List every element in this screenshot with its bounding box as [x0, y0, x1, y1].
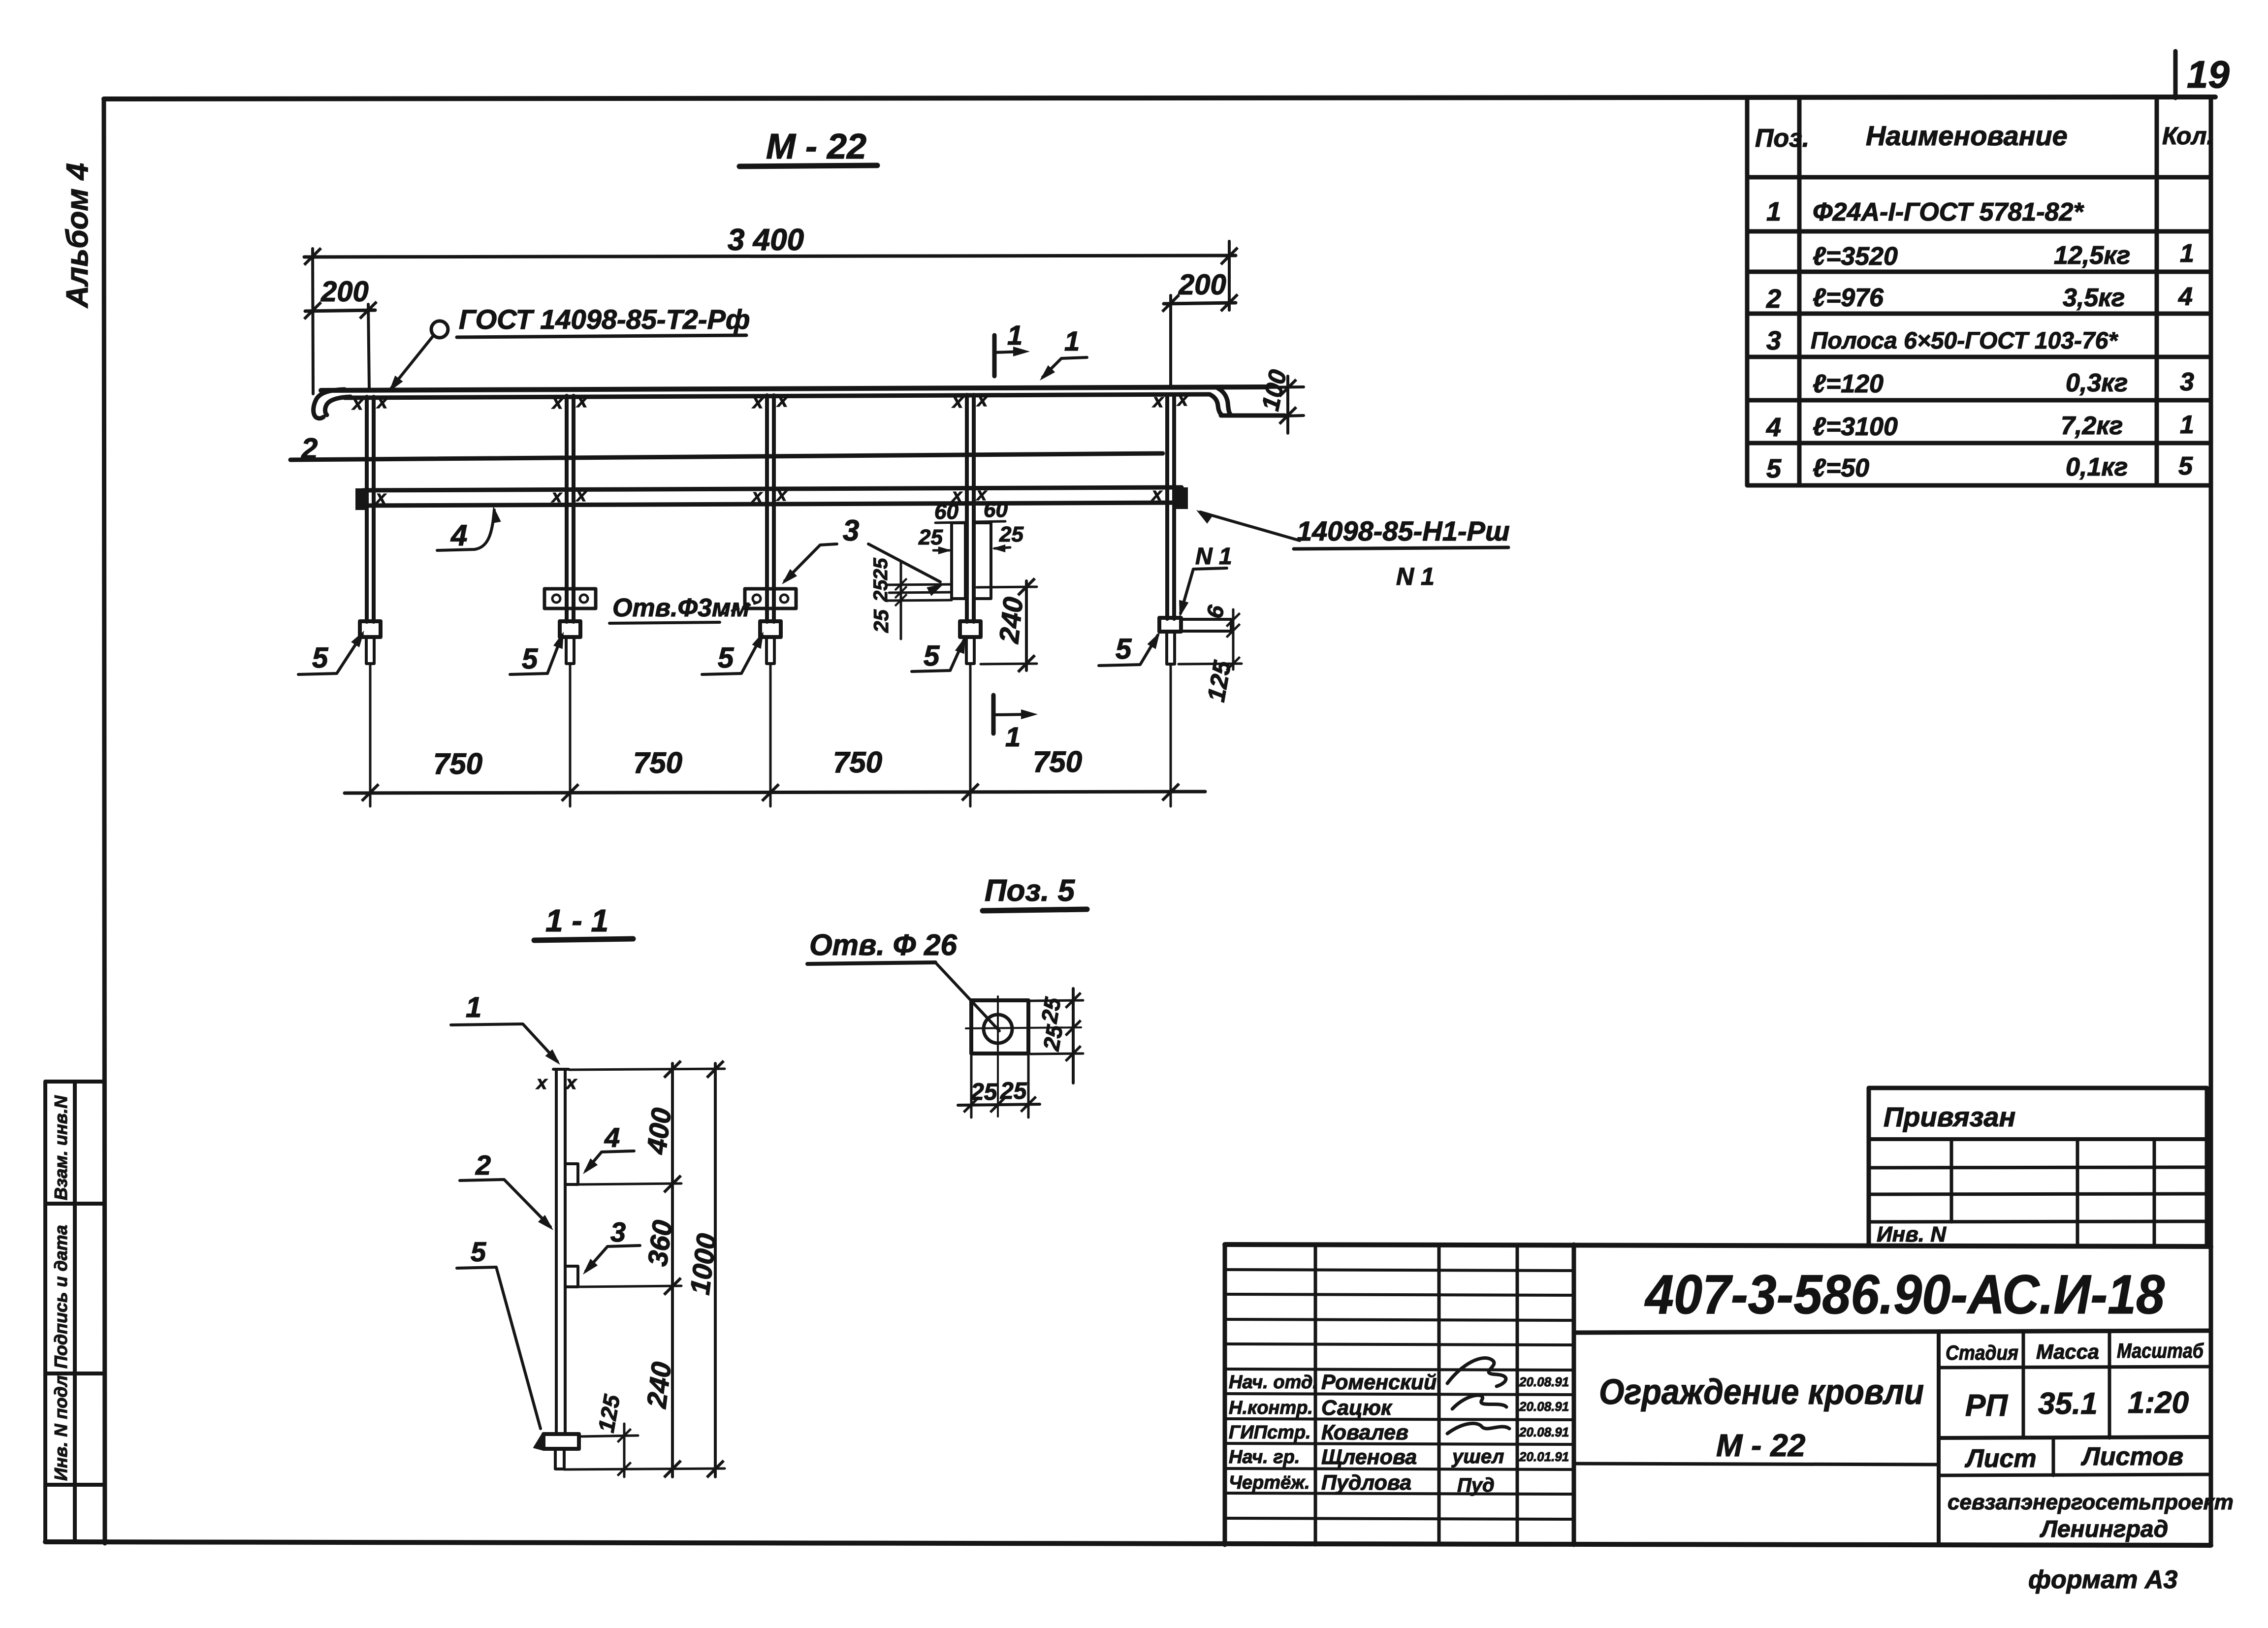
- bracket pos3 on post 3: [745, 589, 796, 608]
- svg-text:240: 240: [993, 596, 1029, 645]
- svg-text:x: x: [536, 1073, 548, 1093]
- otv f3 leader: [721, 603, 757, 614]
- ext line tab3: [578, 1286, 681, 1287]
- label 1 leader: [451, 1024, 557, 1061]
- svg-text:x: x: [551, 392, 564, 413]
- rail left curl outer: [314, 389, 345, 418]
- lower bar pos4: [363, 487, 1182, 506]
- label 2 leader: [460, 1180, 550, 1227]
- svg-text:x: x: [351, 393, 364, 414]
- svg-text:0,1кг: 0,1кг: [2066, 453, 2128, 481]
- stub below clamp: [555, 1449, 564, 1469]
- bracket pos3 on post 2: [544, 589, 596, 608]
- dim 6 ticks: [1226, 613, 1240, 626]
- label 4 leader: [437, 510, 494, 550]
- svg-text:Поз. 5: Поз. 5: [985, 874, 1076, 908]
- svg-text:60: 60: [984, 498, 1008, 522]
- label 5 post1 leader: [298, 634, 362, 674]
- svg-text:М - 22: М - 22: [1716, 1428, 1805, 1463]
- svg-text:Привязан: Привязан: [1884, 1101, 2015, 1132]
- ext line clamp: [579, 1436, 638, 1436]
- svg-text:Инв. N подл.: Инв. N подл.: [51, 1371, 71, 1481]
- dim 200 right line: [1164, 303, 1236, 304]
- pos5 bottom dim line: [958, 1104, 1040, 1105]
- label 5 post5 leader: [1099, 635, 1158, 666]
- svg-text:1: 1: [2180, 239, 2194, 268]
- stub post1: [366, 637, 374, 664]
- svg-text:1: 1: [1007, 319, 1022, 351]
- sig squiggle 3: [1447, 1423, 1509, 1434]
- svg-text:Подпись и дата: Подпись и дата: [51, 1225, 71, 1369]
- post3 lower line: [769, 664, 772, 806]
- pos5 bottom ticks: [964, 1097, 979, 1113]
- svg-text:x: x: [575, 485, 587, 505]
- svg-text:3: 3: [1766, 326, 1781, 355]
- svg-text:x: x: [1177, 389, 1189, 410]
- svg-text:x: x: [776, 390, 789, 411]
- dim chain ticks: [664, 1061, 681, 1078]
- svg-text:ГИПстр.: ГИПстр.: [1229, 1422, 1311, 1443]
- svg-text:x: x: [952, 391, 964, 412]
- page number tick: [2173, 51, 2178, 98]
- svg-text:Сацюк: Сацюк: [1321, 1396, 1393, 1420]
- weld marks at lower bar: [375, 484, 1163, 507]
- svg-text:ℓ=3520: ℓ=3520: [1813, 242, 1898, 271]
- PARTS TABLE TOP RIGHT: [1747, 97, 2213, 485]
- post4 strip right: [974, 523, 991, 599]
- svg-text:Ковалев: Ковалев: [1321, 1421, 1408, 1444]
- stage values row line: [1939, 1437, 2211, 1438]
- dim 240 line: [1025, 581, 1028, 670]
- dim 100 top extension: [1266, 387, 1304, 387]
- pos5 title underline: [983, 909, 1087, 911]
- label 5 post2 leader: [510, 635, 562, 674]
- ext line tab4: [578, 1183, 681, 1184]
- label N1 arrow: [1175, 600, 1188, 619]
- post4 lower line: [969, 664, 972, 806]
- svg-text:Ф24А-I-ГОСТ 5781-82*: Ф24А-I-ГОСТ 5781-82*: [1813, 198, 2084, 226]
- dim 3400 right extension: [1228, 241, 1231, 310]
- svg-text:3,5кг: 3,5кг: [2063, 284, 2125, 312]
- gost label underline: [457, 335, 746, 337]
- name cell bottom line: [1574, 1464, 1939, 1465]
- svg-text:Листов: Листов: [2080, 1442, 2183, 1471]
- dim 200 left ticks: [304, 302, 321, 319]
- dim 125 line: [623, 1424, 626, 1477]
- dim 25 stack line: [900, 562, 902, 639]
- svg-text:Нач. отд.: Нач. отд.: [1229, 1372, 1318, 1393]
- privyazan header bottom: [1869, 1137, 2207, 1141]
- svg-text:25: 25: [970, 1079, 998, 1105]
- svg-text:20.08.91: 20.08.91: [1519, 1425, 1569, 1439]
- signature table verticals: [1315, 1245, 1517, 1545]
- frame bottom border: [45, 1542, 2211, 1545]
- svg-text:Наименование: Наименование: [1866, 120, 2068, 151]
- svg-text:20.08.91: 20.08.91: [1519, 1374, 1569, 1389]
- MAIN DRAWING M-22 ELEVATION: [290, 127, 1510, 806]
- svg-text:4: 4: [604, 1122, 620, 1153]
- pos5 horizontal centerline: [966, 1027, 1081, 1028]
- dim 240 ticks: [1018, 578, 1035, 595]
- svg-text:1: 1: [2180, 411, 2194, 439]
- sig squiggle 2: [1452, 1395, 1506, 1409]
- svg-text:750: 750: [433, 747, 482, 780]
- stamp box grid: [45, 1082, 104, 1542]
- label 3 leader: [586, 1245, 640, 1271]
- svg-text:4: 4: [1766, 413, 1781, 442]
- weld ref underline: [1294, 547, 1508, 549]
- svg-text:5: 5: [312, 642, 328, 674]
- label 1 flag leader: [1043, 357, 1087, 377]
- dim 750 line: [345, 792, 1205, 793]
- svg-text:5: 5: [1766, 454, 1782, 483]
- svg-text:12,5кг: 12,5кг: [2054, 241, 2130, 270]
- dim 1000 line: [714, 1063, 717, 1477]
- svg-text:ушел: ушел: [1451, 1446, 1504, 1468]
- label 3 leader right: [868, 544, 940, 582]
- LEFT MARGIN STAMP BOXES: [45, 1082, 104, 1542]
- label 4 leader: [586, 1151, 634, 1171]
- svg-text:5: 5: [718, 642, 734, 674]
- signature table rows: [1225, 1270, 1574, 1519]
- svg-text:Роменский: Роменский: [1321, 1371, 1437, 1394]
- stage header row line: [1939, 1367, 2211, 1368]
- svg-text:Лист: Лист: [1964, 1444, 2037, 1473]
- svg-text:360: 360: [641, 1218, 678, 1268]
- svg-text:20.08.91: 20.08.91: [1519, 1399, 1569, 1414]
- svg-text:14098-85-Н1-Рш: 14098-85-Н1-Рш: [1297, 515, 1510, 546]
- svg-text:25: 25: [1036, 995, 1066, 1025]
- label 5 leader: [457, 1267, 541, 1429]
- dim 25 stack ticks: [895, 578, 907, 590]
- pos5 right ext lines: [1030, 1000, 1083, 1054]
- svg-text:25: 25: [870, 558, 892, 580]
- weld ref arrow: [1193, 506, 1213, 524]
- tab pos4: [565, 1164, 578, 1184]
- svg-text:750: 750: [633, 746, 682, 779]
- svg-text:Кол.: Кол.: [2162, 122, 2213, 150]
- label N1 leader: [1181, 568, 1227, 613]
- post 4: [967, 395, 974, 622]
- dim 200 left line: [305, 310, 375, 311]
- svg-text:1:20: 1:20: [2128, 1386, 2189, 1420]
- svg-text:25: 25: [1000, 1078, 1027, 1104]
- svg-text:Стадия: Стадия: [1946, 1341, 2018, 1364]
- svg-text:4: 4: [450, 519, 467, 552]
- stub post4: [966, 637, 974, 664]
- svg-text:25: 25: [918, 525, 943, 549]
- svg-text:РП: РП: [1965, 1389, 2008, 1423]
- svg-text:x: x: [576, 391, 588, 412]
- svg-text:Полоса 6×50-ГОСТ 103-76*: Полоса 6×50-ГОСТ 103-76*: [1811, 328, 2118, 354]
- list row line: [1939, 1474, 2211, 1475]
- label 3 arrow right: [926, 579, 946, 596]
- POS 5 DETAIL: [807, 874, 1087, 1117]
- dim 200 right ticks: [1162, 295, 1179, 312]
- svg-text:5: 5: [471, 1236, 486, 1267]
- PRIVYAZAN TABLE: [1869, 1088, 2207, 1246]
- svg-text:Взам. инв.N: Взам. инв.N: [51, 1095, 71, 1200]
- label 5 post4 leader: [912, 640, 964, 671]
- rail left curl inner: [325, 397, 351, 415]
- dim 25 left arrow: [933, 549, 949, 552]
- dim 100 bottom extension: [1286, 415, 1304, 416]
- lower bar right end plate: [1175, 487, 1188, 509]
- svg-text:ℓ=976: ℓ=976: [1813, 284, 1884, 312]
- svg-text:750: 750: [833, 746, 882, 779]
- post1 lower line: [369, 664, 372, 806]
- svg-text:1: 1: [1064, 325, 1080, 356]
- svg-text:5: 5: [924, 640, 940, 672]
- svg-text:x: x: [751, 485, 763, 506]
- svg-text:25: 25: [1038, 1022, 1068, 1053]
- svg-text:Ограждение кровли: Ограждение кровли: [1599, 1373, 1924, 1412]
- stage column verticals: [2023, 1333, 2109, 1438]
- mid rod line: [290, 453, 1163, 460]
- svg-text:ℓ=120: ℓ=120: [1813, 370, 1884, 398]
- svg-text:3: 3: [843, 514, 859, 547]
- svg-text:Ленинград: Ленинград: [2040, 1516, 2168, 1542]
- parts table grid: [1747, 97, 2211, 485]
- dim 60 lines: [935, 521, 1005, 523]
- svg-text:60: 60: [934, 500, 958, 524]
- gost leader arrow: [385, 376, 403, 395]
- dim chain line: [671, 1063, 674, 1477]
- dim 200 right extension: [1169, 295, 1172, 388]
- svg-text:Пуд: Пуд: [1457, 1474, 1495, 1496]
- svg-text:Нач. гр.: Нач. гр.: [1229, 1447, 1300, 1468]
- lower bar left end plate: [355, 488, 369, 510]
- tab pos3: [565, 1266, 578, 1287]
- gost label leader: [391, 335, 434, 388]
- rail right lip: [1221, 414, 1285, 418]
- weld marks at rail: [351, 389, 1189, 414]
- svg-text:19: 19: [2187, 53, 2230, 96]
- svg-text:Инв. N: Инв. N: [1877, 1222, 1947, 1246]
- stage block left vertical: [1937, 1333, 1941, 1545]
- label 3 leader left: [785, 544, 837, 581]
- dim 3400 left extension: [313, 249, 313, 394]
- svg-text:5: 5: [522, 643, 538, 675]
- clamp post5: [1159, 618, 1181, 632]
- dim 750 ticks: [362, 784, 379, 801]
- section title underline: [534, 939, 633, 940]
- dim 100 line: [1286, 376, 1289, 433]
- svg-text:N 1: N 1: [1396, 563, 1435, 590]
- rail right step inner: [1210, 394, 1221, 415]
- section mark lower tick: [991, 695, 996, 734]
- label 4 arrow: [488, 505, 501, 523]
- svg-text:N 1: N 1: [1195, 543, 1232, 570]
- section mark upper arrow line: [994, 351, 1023, 352]
- clamp post1: [360, 621, 381, 637]
- frame top border: [104, 97, 2215, 99]
- dim 125 ticks: [617, 1429, 631, 1442]
- section mark upper tick: [992, 335, 997, 376]
- dim 25 right arrow: [994, 547, 1010, 548]
- svg-text:x: x: [376, 392, 388, 413]
- svg-text:ℓ=3100: ℓ=3100: [1813, 413, 1898, 441]
- signature table right edge: [1572, 1245, 1576, 1545]
- ext line bottom: [564, 1468, 725, 1469]
- post 5: [1167, 394, 1174, 619]
- label 1 flag arrow: [1036, 365, 1055, 384]
- svg-text:Н.контр.: Н.контр.: [1229, 1398, 1313, 1418]
- post section lines: [553, 1069, 569, 1434]
- svg-text:Отв. Ф 26: Отв. Ф 26: [809, 928, 957, 961]
- rail top line: [321, 387, 1265, 390]
- svg-text:Щленова: Щленова: [1321, 1445, 1417, 1469]
- otv f3 underline: [609, 622, 720, 623]
- stub post3: [767, 637, 774, 664]
- TITLE BLOCK: [1225, 1245, 2234, 1594]
- pos5 plate square: [971, 1000, 1028, 1053]
- svg-text:750: 750: [1033, 745, 1082, 778]
- post 2: [567, 396, 574, 622]
- post 1: [367, 397, 374, 622]
- pos5 right ticks: [1066, 993, 1081, 1008]
- svg-text:x: x: [752, 392, 764, 413]
- frame left border: [104, 99, 105, 1543]
- label 5 post3 leader: [702, 635, 762, 674]
- svg-text:25: 25: [870, 579, 892, 602]
- svg-text:Альбом 4: Альбом 4: [61, 163, 95, 309]
- gost label circle: [431, 321, 448, 338]
- svg-text:7,2кг: 7,2кг: [2061, 412, 2123, 440]
- svg-text:x: x: [551, 486, 563, 506]
- svg-text:Отв.Ф3мм: Отв.Ф3мм: [612, 594, 750, 622]
- title underline: [739, 165, 877, 166]
- rail right step outer: [1217, 388, 1230, 414]
- dim 100 ticks: [1279, 380, 1296, 396]
- svg-text:севзапэнергосетьпроект: севзапэнергосетьпроект: [1948, 1490, 2234, 1514]
- privyazan columns: [1951, 1139, 2154, 1245]
- dim 200 left extension: [368, 304, 369, 390]
- post5 side plate: [1181, 619, 1231, 631]
- post2 lower line: [569, 664, 572, 806]
- svg-text:3: 3: [2180, 368, 2194, 396]
- pos5 vertical centerline: [997, 996, 999, 1117]
- svg-text:20.01.91: 20.01.91: [1519, 1449, 1569, 1464]
- svg-text:x: x: [776, 484, 788, 505]
- svg-text:5: 5: [1116, 633, 1132, 665]
- stub post5: [1167, 632, 1175, 664]
- dim 1000 ticks: [707, 1061, 724, 1078]
- svg-text:формат А3: формат А3: [2028, 1565, 2177, 1594]
- dim 3400 line: [304, 255, 1236, 257]
- dim 3400 ticks: [304, 248, 321, 265]
- title block top edge: [1225, 1245, 2211, 1246]
- svg-text:x: x: [1151, 484, 1163, 504]
- svg-text:25: 25: [999, 522, 1023, 546]
- svg-text:3 400: 3 400: [728, 223, 804, 257]
- dim 240 bottom extension: [981, 664, 1037, 664]
- svg-text:2: 2: [475, 1149, 491, 1181]
- svg-text:Масса: Масса: [2036, 1340, 2099, 1363]
- svg-text:200: 200: [1178, 269, 1226, 301]
- otv f26 underline: [807, 962, 935, 964]
- svg-text:407-3-586.90-АС.И-18: 407-3-586.90-АС.И-18: [1644, 1264, 2165, 1325]
- list column divider: [2052, 1438, 2055, 1475]
- svg-text:0,3кг: 0,3кг: [2066, 369, 2128, 397]
- ext line top: [569, 1069, 725, 1070]
- svg-text:1: 1: [466, 991, 481, 1023]
- svg-text:ℓ=50: ℓ=50: [1813, 454, 1869, 482]
- post5 lower line: [1170, 664, 1172, 806]
- privyazan outer: [1869, 1088, 2207, 1245]
- clamp post2: [560, 621, 580, 637]
- section mark lower arrow line: [993, 714, 1031, 715]
- svg-text:240: 240: [640, 1360, 677, 1410]
- clamp post4: [960, 621, 981, 637]
- SECTION 1-1 VIEW: [451, 903, 725, 1477]
- signature table left edge: [1223, 1245, 1227, 1545]
- pos5 right dim line: [1072, 989, 1075, 1083]
- svg-text:ГОСТ 14098-85-Т2-Рф: ГОСТ 14098-85-Т2-Рф: [459, 304, 750, 335]
- svg-text:x: x: [1152, 391, 1164, 412]
- svg-text:Поз.: Поз.: [1755, 124, 1809, 153]
- dim 240 top extension: [977, 587, 1037, 587]
- svg-text:1: 1: [1766, 197, 1781, 226]
- svg-text:200: 200: [320, 276, 369, 308]
- post 3: [767, 395, 774, 622]
- svg-text:М - 22: М - 22: [766, 127, 866, 166]
- pos5 hole circle: [984, 1015, 1012, 1043]
- weld x marks: [536, 1073, 577, 1093]
- svg-text:1: 1: [1005, 721, 1021, 752]
- svg-text:1 - 1: 1 - 1: [545, 903, 608, 938]
- svg-text:x: x: [375, 487, 387, 507]
- weld ref leader: [1200, 512, 1300, 541]
- svg-text:x: x: [976, 390, 989, 411]
- svg-text:35.1: 35.1: [2038, 1387, 2098, 1421]
- pos5 bottom ext lines: [971, 1055, 1028, 1117]
- svg-text:5: 5: [2178, 452, 2193, 480]
- clamp post3: [760, 621, 781, 637]
- svg-text:Пудлова: Пудлова: [1321, 1471, 1411, 1495]
- post4 side lines: [886, 584, 952, 601]
- privyazan rows: [1869, 1167, 2207, 1222]
- post4 strip left: [952, 523, 965, 599]
- clamp pos5: [543, 1434, 579, 1449]
- svg-text:Чертёж.: Чертёж.: [1229, 1472, 1310, 1493]
- dim 6 line: [1179, 609, 1242, 670]
- svg-text:2: 2: [1766, 284, 1781, 314]
- svg-text:4: 4: [2178, 283, 2193, 311]
- stub post2: [566, 637, 574, 664]
- big cell number line: [1574, 1331, 2211, 1333]
- label 3 arrow left: [778, 569, 797, 588]
- svg-text:25: 25: [869, 609, 893, 633]
- rail bottom line: [345, 394, 1209, 398]
- sig squiggle 1: [1447, 1358, 1506, 1386]
- svg-text:x: x: [565, 1073, 577, 1093]
- svg-text:Масштаб: Масштаб: [2117, 1339, 2204, 1362]
- otv f26 leader: [935, 962, 999, 1031]
- frame right border: [2209, 97, 2213, 1545]
- svg-text:3: 3: [610, 1216, 626, 1247]
- svg-text:400: 400: [640, 1106, 677, 1156]
